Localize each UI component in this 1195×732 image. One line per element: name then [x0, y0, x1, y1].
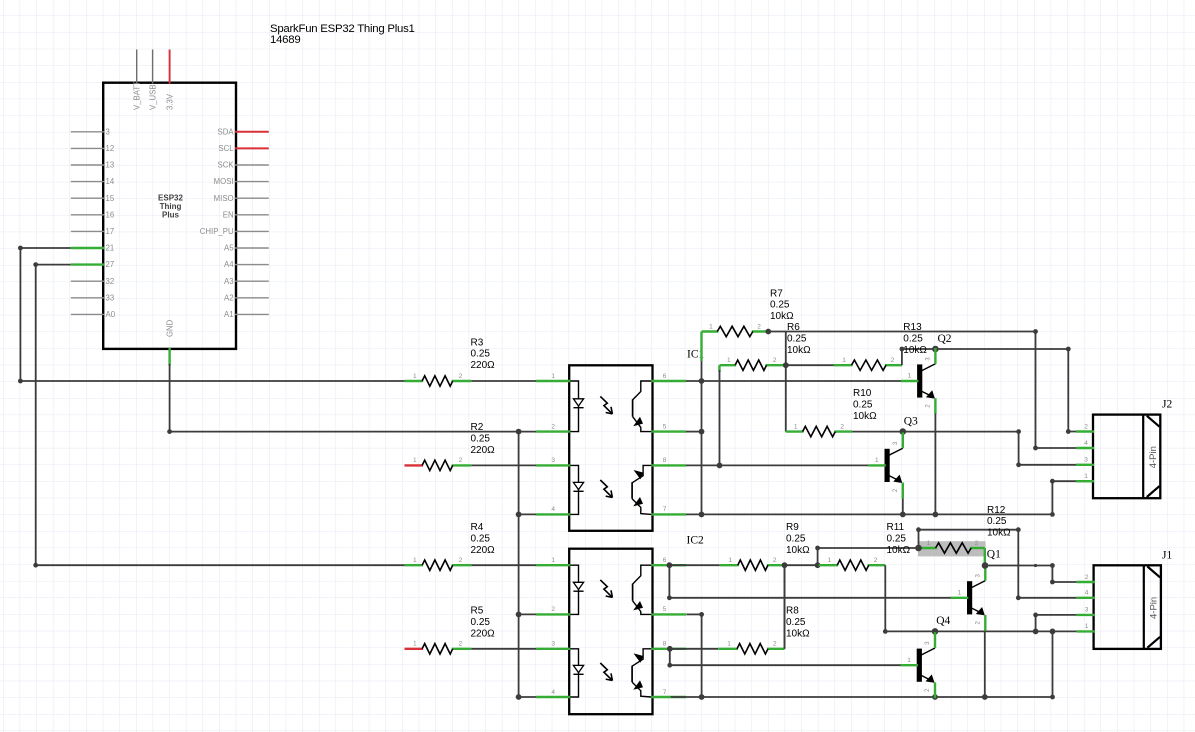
- svg-text:0.25: 0.25: [787, 333, 807, 344]
- svg-text:R8: R8: [786, 606, 799, 617]
- svg-text:R11: R11: [887, 522, 905, 533]
- svg-text:1: 1: [794, 423, 798, 430]
- svg-text:3: 3: [106, 127, 110, 136]
- svg-text:A3: A3: [224, 277, 234, 286]
- svg-text:GND: GND: [165, 319, 174, 337]
- svg-text:2: 2: [975, 540, 979, 547]
- svg-text:R4: R4: [471, 522, 484, 533]
- svg-text:10kΩ: 10kΩ: [786, 628, 810, 639]
- svg-text:R9: R9: [786, 522, 799, 533]
- svg-text:4-Pin: 4-Pin: [1148, 597, 1159, 619]
- svg-text:0.25: 0.25: [786, 533, 806, 544]
- svg-text:J2: J2: [1162, 398, 1172, 410]
- svg-text:8: 8: [663, 457, 667, 464]
- svg-text:6: 6: [663, 373, 667, 380]
- svg-text:1: 1: [907, 657, 911, 664]
- svg-text:1: 1: [551, 557, 555, 564]
- svg-text:2: 2: [773, 557, 777, 564]
- svg-text:1: 1: [927, 540, 931, 547]
- svg-text:10kΩ: 10kΩ: [903, 345, 927, 356]
- svg-text:MISO: MISO: [214, 194, 234, 203]
- svg-text:R10: R10: [853, 388, 872, 399]
- svg-text:4: 4: [551, 689, 555, 696]
- svg-text:21: 21: [106, 244, 115, 253]
- svg-text:3: 3: [1085, 607, 1089, 614]
- svg-text:2: 2: [459, 373, 463, 380]
- svg-text:0.25: 0.25: [471, 533, 491, 544]
- svg-text:0.25: 0.25: [786, 617, 806, 628]
- svg-text:Q2: Q2: [938, 333, 952, 345]
- svg-text:5: 5: [663, 606, 667, 613]
- svg-text:14689: 14689: [270, 34, 300, 46]
- svg-text:10kΩ: 10kΩ: [787, 345, 811, 356]
- svg-text:7: 7: [663, 689, 667, 696]
- svg-text:R12: R12: [987, 505, 1006, 516]
- svg-text:1: 1: [728, 557, 732, 564]
- svg-text:16: 16: [106, 210, 115, 219]
- svg-text:17: 17: [106, 227, 115, 236]
- svg-text:R13: R13: [903, 322, 922, 333]
- svg-text:13: 13: [106, 161, 115, 170]
- svg-text:2: 2: [459, 641, 463, 648]
- svg-text:32: 32: [106, 277, 115, 286]
- svg-text:4: 4: [1085, 590, 1089, 597]
- svg-text:4-Pin: 4-Pin: [1148, 446, 1159, 468]
- svg-text:2: 2: [1084, 423, 1088, 430]
- svg-text:2: 2: [773, 641, 777, 648]
- svg-text:R5: R5: [471, 606, 484, 617]
- svg-text:0.25: 0.25: [987, 516, 1007, 527]
- svg-text:2: 2: [459, 457, 463, 464]
- svg-text:14: 14: [106, 177, 115, 186]
- svg-text:1: 1: [709, 323, 713, 330]
- svg-text:ESP32: ESP32: [158, 193, 183, 202]
- svg-text:10kΩ: 10kΩ: [786, 545, 810, 556]
- svg-text:220Ω: 220Ω: [471, 360, 496, 371]
- svg-text:Q4: Q4: [936, 615, 950, 627]
- svg-text:6: 6: [663, 557, 667, 564]
- svg-text:220Ω: 220Ω: [471, 545, 496, 556]
- svg-text:10kΩ: 10kΩ: [987, 528, 1011, 539]
- svg-text:1: 1: [727, 641, 731, 648]
- svg-text:2: 2: [1085, 574, 1089, 581]
- svg-text:A0: A0: [106, 310, 116, 319]
- svg-text:0.25: 0.25: [853, 399, 873, 410]
- svg-text:Q3: Q3: [904, 416, 918, 428]
- svg-text:2: 2: [773, 357, 777, 364]
- svg-text:A4: A4: [224, 260, 234, 269]
- svg-text:33: 33: [106, 293, 115, 302]
- svg-text:10kΩ: 10kΩ: [770, 311, 794, 322]
- svg-text:1: 1: [551, 373, 555, 380]
- svg-text:SDA: SDA: [218, 127, 235, 136]
- svg-text:1: 1: [413, 457, 417, 464]
- svg-text:0.25: 0.25: [903, 333, 923, 344]
- svg-text:1: 1: [413, 373, 417, 380]
- svg-text:SCL: SCL: [218, 144, 234, 153]
- svg-text:EN: EN: [223, 210, 234, 219]
- svg-text:R2: R2: [471, 422, 484, 433]
- svg-text:5: 5: [663, 423, 667, 430]
- svg-text:SCK: SCK: [218, 161, 235, 170]
- svg-text:1: 1: [413, 557, 417, 564]
- svg-text:Plus: Plus: [162, 211, 179, 220]
- svg-text:4: 4: [551, 506, 555, 513]
- svg-text:12: 12: [106, 144, 115, 153]
- svg-text:10kΩ: 10kΩ: [853, 411, 877, 422]
- svg-text:Q1: Q1: [987, 548, 1001, 560]
- svg-text:A2: A2: [224, 293, 234, 302]
- svg-text:8: 8: [663, 641, 667, 648]
- svg-text:3: 3: [551, 457, 555, 464]
- svg-text:2: 2: [459, 557, 463, 564]
- svg-text:1: 1: [842, 357, 846, 364]
- svg-text:A1: A1: [224, 310, 234, 319]
- svg-text:0.25: 0.25: [887, 533, 907, 544]
- svg-text:15: 15: [106, 194, 115, 203]
- svg-text:220Ω: 220Ω: [471, 628, 496, 639]
- svg-text:MOSI: MOSI: [214, 177, 234, 186]
- svg-text:2: 2: [551, 606, 555, 613]
- svg-text:CHIP_PU: CHIP_PU: [200, 227, 234, 236]
- svg-text:J1: J1: [1162, 550, 1172, 562]
- svg-text:1: 1: [1084, 473, 1088, 480]
- svg-text:R7: R7: [770, 288, 783, 299]
- svg-text:220Ω: 220Ω: [471, 445, 496, 456]
- svg-text:3.3V: 3.3V: [165, 93, 174, 110]
- svg-text:1: 1: [413, 641, 417, 648]
- svg-text:0.25: 0.25: [471, 434, 491, 445]
- svg-text:1: 1: [875, 457, 879, 464]
- svg-text:V_BATT: V_BATT: [133, 81, 142, 110]
- svg-text:R3: R3: [471, 337, 484, 348]
- svg-text:1: 1: [727, 357, 731, 364]
- svg-text:4: 4: [1084, 440, 1088, 447]
- svg-text:Thing: Thing: [160, 202, 182, 211]
- svg-text:3: 3: [1084, 457, 1088, 464]
- svg-text:7: 7: [663, 506, 667, 513]
- svg-text:3: 3: [551, 641, 555, 648]
- svg-text:A5: A5: [224, 244, 234, 253]
- svg-text:2: 2: [551, 423, 555, 430]
- svg-text:R6: R6: [787, 322, 800, 333]
- svg-text:27: 27: [106, 260, 115, 269]
- svg-text:2: 2: [840, 423, 844, 430]
- svg-text:IC2: IC2: [687, 534, 705, 546]
- svg-text:0.25: 0.25: [471, 349, 491, 360]
- svg-text:V_USB: V_USB: [148, 84, 157, 110]
- svg-text:0.25: 0.25: [471, 617, 491, 628]
- svg-text:1: 1: [957, 589, 961, 596]
- svg-text:2: 2: [891, 357, 895, 364]
- svg-text:2: 2: [874, 557, 878, 564]
- svg-text:2: 2: [757, 323, 761, 330]
- svg-text:0.25: 0.25: [770, 300, 790, 311]
- svg-text:1: 1: [828, 557, 832, 564]
- svg-text:1: 1: [908, 373, 912, 380]
- svg-text:10kΩ: 10kΩ: [887, 545, 911, 556]
- svg-text:1: 1: [1085, 623, 1089, 630]
